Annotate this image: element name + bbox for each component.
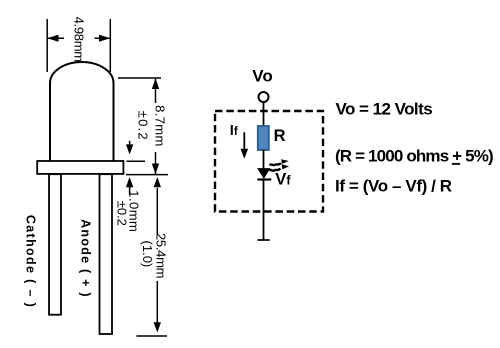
svg-text:If: If [230, 123, 238, 139]
svg-text:(R = 1000 ohms + 5%): (R = 1000 ohms + 5%) [335, 146, 493, 165]
anode lead [100, 174, 113, 334]
svg-text:Cathode ( – ): Cathode ( – ) [24, 215, 38, 308]
svg-text:±0.2: ±0.2 [114, 201, 129, 226]
resistor R1 [258, 126, 269, 150]
LED diode triangle [258, 169, 270, 178]
svg-text:R: R [274, 127, 286, 145]
dimension 25.4mm (1.0) [136, 188, 167, 336]
LED emission arrow lower [269, 169, 280, 171]
wire middle [263, 150, 265, 170]
svg-text:Vo: Vo [252, 67, 272, 86]
dimension 1.0mm +/-0.2 [126, 141, 145, 195]
dimension 4.98mm [47, 19, 110, 72]
terminal circle [259, 92, 269, 102]
LED flange [37, 161, 123, 174]
svg-text:(1.0): (1.0) [140, 241, 155, 268]
svg-text:4.98mm: 4.98mm [71, 17, 86, 62]
current arrow If [243, 132, 245, 149]
cathode lead [49, 174, 61, 315]
svg-text:±0.2: ±0.2 [136, 111, 151, 141]
svg-text:Anode ( + ): Anode ( + ) [79, 219, 93, 298]
wire bottom [263, 181, 265, 241]
svg-text:Vf: Vf [275, 170, 291, 188]
LED emission arrow upper [270, 163, 281, 165]
terminal end bar [258, 239, 270, 241]
svg-text:8.7mm: 8.7mm [152, 105, 167, 146]
LED cathode bar [257, 178, 271, 180]
dashed box [215, 111, 323, 212]
svg-text:Vo = 12 Volts: Vo = 12 Volts [336, 100, 433, 119]
wire top [263, 102, 265, 127]
LED body (epoxy dome) [50, 62, 114, 161]
svg-text:If = (Vo – Vf) / R: If = (Vo – Vf) / R [335, 177, 452, 196]
dimension 8.7mm +/-0.2 [118, 78, 168, 175]
